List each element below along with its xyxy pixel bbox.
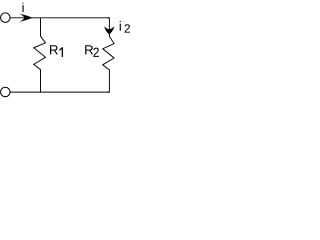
terminal T2 (bottom-left, open circle)	[1, 87, 11, 97]
wire (bottom horizontal from T2 to R2 bottom corner)	[10, 91, 109, 93]
terminal T1 (top-left input, open circle)	[1, 13, 11, 23]
label R2 subscript 2	[93, 48, 99, 57]
label R1 glyph R	[50, 45, 58, 54]
current arrow i (right-pointing filled arrowhead on top wire)	[19, 14, 32, 22]
current arrow i2 (down-pointing filled arrowhead on R2 top lead)	[104, 26, 114, 34]
label i2 glyph i	[120, 21, 121, 31]
label i (top wire current)	[22, 3, 23, 12]
wire (top horizontal from T1 to R2 top corner)	[10, 17, 109, 19]
resistor R2 (vertical, with lead from top wire corner)	[103, 18, 114, 92]
label R1 subscript 1	[59, 47, 63, 57]
label R2 glyph R	[85, 45, 93, 54]
resistor R1	[34, 18, 46, 92]
label i2 subscript 2	[125, 24, 130, 32]
